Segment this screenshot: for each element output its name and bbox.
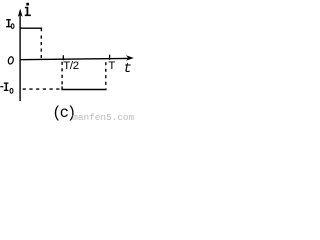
label i: foot serif [25, 15, 31, 17]
dashed -I0 guide line from axis to T/2 [23, 88, 63, 90]
label I0: I bottom serif [6, 26, 11, 27]
label -I0: subscript 0 [10, 88, 13, 93]
dashed vertical at T below axis [105, 62, 107, 88]
label -I0: I bottom serif [4, 90, 9, 91]
label T [108, 60, 115, 72]
label -I0: I top serif [4, 83, 9, 84]
label -I0: minus [0, 86, 3, 87]
waveform bottom plateau -I0 [62, 87, 107, 90]
dashed vertical at T/2 below axis [61, 62, 63, 87]
label T/2 [63, 60, 79, 72]
caption (c): close paren [67, 104, 76, 122]
horizontal axis arrowhead [126, 55, 134, 60]
label i: top-left flag serif [25, 7, 27, 9]
caption (c): open paren [52, 104, 61, 122]
caption (c): letter c [60, 104, 69, 122]
label i: stem [27, 7, 29, 16]
vertical axis (i axis) [19, 11, 21, 102]
label I0: subscript 0 [11, 24, 14, 29]
label I0: I top serif [6, 19, 11, 20]
vertical axis arrowhead [18, 9, 23, 17]
label t (time axis) [123, 61, 131, 77]
horizontal axis (t axis) [20, 58, 129, 59]
label -I0: I stem [6, 83, 8, 92]
tick T/2 [62, 55, 64, 60]
dashed drop from top plateau to axis [40, 36, 42, 60]
waveform top plateau +I0 [20, 28, 41, 31]
label O (origin), slanted oval [8, 56, 14, 64]
label I0: I stem [8, 19, 9, 27]
label i (current axis): dot [26, 3, 29, 6]
watermark manfen5.com [72, 112, 134, 123]
tick T [109, 55, 111, 60]
